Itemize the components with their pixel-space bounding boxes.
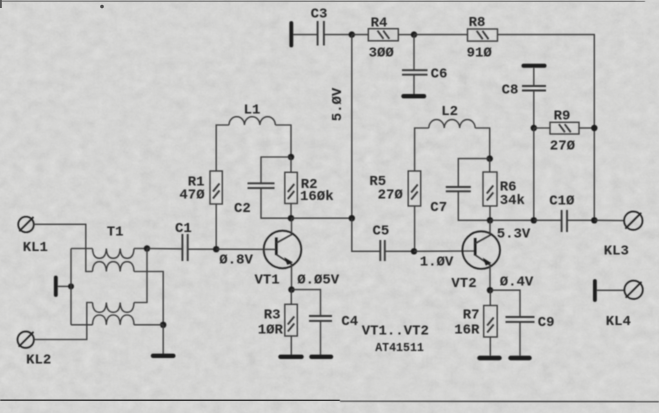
terminal bar KL4: [593, 281, 597, 300]
wire bar to C8: [533, 68, 535, 86]
svg-text:KL1: KL1: [23, 240, 48, 256]
R3 leads: [290, 290, 292, 305]
terminal bar T1 center: [54, 278, 58, 296]
svg-text:5.ØV: 5.ØV: [330, 87, 346, 121]
capacitor C9: [506, 317, 535, 322]
wire node to C7 top: [458, 159, 489, 187]
svg-text:L1: L1: [244, 102, 261, 118]
terminal bar above C8: [524, 64, 545, 68]
inductor L2: [429, 120, 475, 128]
VT1 emitter wire: [291, 265, 293, 290]
svg-text:47Ø: 47Ø: [179, 188, 205, 204]
svg-text:C4: C4: [341, 314, 358, 330]
node C10/rail: [591, 217, 597, 223]
wire KL2 to T1: [34, 303, 92, 340]
terminal KL3: [624, 212, 642, 230]
wire node down to winding 2a: [134, 249, 147, 303]
wire node to 5.0V rail: [291, 217, 352, 219]
node C1/R1/base VT1: [213, 246, 219, 252]
svg-text:C8: C8: [502, 83, 519, 99]
resistor R9: [550, 122, 579, 134]
wire rail node down to C5: [352, 218, 380, 251]
node emitter VT1: [288, 286, 294, 292]
ground of R3: [281, 355, 302, 359]
resistor R5: [408, 171, 421, 206]
wire KL4 bar to circle: [597, 289, 625, 291]
wire bar to node: [58, 285, 71, 287]
svg-text:AT41511: AT41511: [375, 342, 424, 355]
bottom border line: [0, 400, 340, 401]
svg-text:C1: C1: [175, 221, 192, 237]
node R2/C2/collector: [288, 215, 294, 221]
speck top left: [100, 5, 104, 9]
wire to T1 winding 1a: [71, 248, 93, 250]
VT1 collector wire: [291, 218, 293, 234]
wire C5 to node: [385, 250, 414, 252]
inductor L1: [229, 117, 275, 125]
transformer T1 winding 2a (humps down): [93, 303, 135, 313]
wire C6 to ground: [413, 75, 415, 94]
wire C2 bottom to node: [261, 188, 291, 218]
transistor VT2: [462, 231, 500, 269]
svg-text:C9: C9: [538, 315, 555, 331]
node C8/R9: [531, 125, 537, 131]
terminal KL1: [18, 217, 34, 233]
svg-text:C2: C2: [234, 201, 251, 217]
wire node to C2 top: [261, 157, 291, 183]
resistor R4: [368, 29, 398, 41]
transistor VT1: [264, 231, 302, 269]
node top of 5.0V rail: [349, 31, 355, 37]
svg-text:R7: R7: [463, 308, 480, 324]
transformer T1 winding 1b (humps up): [93, 262, 135, 272]
C4 lead to ground: [320, 321, 322, 355]
svg-text:C6: C6: [431, 66, 448, 82]
resistor R2: [285, 172, 298, 203]
wire node to R4: [352, 34, 369, 36]
capacitor C10: [562, 210, 567, 232]
VT2 collector wire: [489, 220, 491, 235]
node L1/R2/C2: [288, 154, 294, 160]
node C5/R5/base VT2: [411, 248, 417, 254]
svg-text:T1: T1: [107, 225, 124, 241]
svg-text:C1Ø: C1Ø: [549, 194, 575, 210]
wire L2 left to R5: [415, 128, 429, 171]
node R4/R8/C6: [411, 31, 417, 37]
svg-text:R9: R9: [554, 109, 571, 125]
transformer T1 winding 1a (top, humps down): [93, 248, 135, 258]
node T1 center tap: [68, 283, 74, 289]
capacitor C2: [248, 183, 275, 188]
node T1 output: [144, 245, 150, 251]
wire R5 to C5 node: [414, 206, 416, 251]
resistor R6: [483, 172, 497, 206]
svg-text:R8: R8: [469, 15, 486, 31]
svg-text:C5: C5: [373, 223, 390, 239]
wire emitter node to C4: [292, 290, 321, 316]
node windings right: [160, 322, 166, 328]
ground of T1: [153, 354, 173, 358]
wire R9 to rail node: [579, 127, 594, 129]
R7 leads: [489, 290, 491, 305]
svg-text:VT1: VT1: [255, 273, 280, 289]
svg-text:KL3: KL3: [604, 244, 629, 260]
svg-text:1ØR: 1ØR: [258, 322, 284, 338]
wire node to KL3: [594, 219, 624, 221]
node R9/rail: [591, 125, 597, 131]
svg-text:Ø.4V: Ø.4V: [500, 275, 534, 291]
svg-text:16Øk: 16Øk: [300, 189, 334, 205]
wire node to ground: [162, 325, 164, 354]
capacitor C7: [446, 187, 471, 191]
ground of R7: [480, 356, 500, 360]
wire winding 1a to node: [134, 248, 147, 250]
wire R1 to base row node: [215, 204, 217, 249]
capacitor C1: [182, 234, 187, 261]
wire node to C6: [413, 35, 415, 70]
terminal bar (input of C3, top left): [289, 23, 293, 46]
top border line: [0, 0, 645, 3]
terminal KL2: [18, 332, 34, 348]
wire node to R9: [534, 127, 550, 129]
transformer T1 winding 2b (humps up): [93, 315, 135, 325]
wire C7 bottom to node: [458, 192, 490, 221]
svg-text:91Ø: 91Ø: [467, 45, 493, 61]
svg-text:16R: 16R: [454, 322, 480, 338]
speck top left edge: [0, 0, 2, 8]
5.0V rail: [351, 35, 353, 219]
capacitor C4: [309, 316, 332, 321]
wire right rail R9 to KL3 row: [593, 128, 595, 220]
node L2/R6/C7: [487, 155, 493, 161]
VT2 emitter wire: [489, 266, 491, 291]
resistor R1: [210, 171, 222, 204]
wire center tap rail: [70, 249, 72, 325]
wire winding 1b down to node: [134, 272, 163, 325]
capacitor C5: [380, 240, 385, 261]
svg-text:R3: R3: [264, 308, 281, 324]
node C10 left: [531, 217, 537, 223]
wire to T1 winding 2b: [71, 324, 93, 326]
wire C8 to node: [533, 91, 535, 129]
capacitor C6: [402, 70, 428, 75]
wire T1 node to C1: [147, 248, 182, 250]
terminal KL4: [624, 281, 642, 299]
wire R8 to right rail: [498, 35, 595, 128]
R6 leads: [489, 159, 491, 172]
svg-text:3ØØ: 3ØØ: [369, 45, 395, 61]
svg-text:KL2: KL2: [26, 353, 51, 369]
wire winding 2b to node: [134, 324, 163, 326]
wire node to C10: [534, 219, 562, 221]
wire node to VT1 base: [216, 248, 276, 250]
svg-text:C7: C7: [430, 200, 447, 216]
wire node to VT2 base: [414, 250, 475, 252]
node 5.0V rail / C5 branch: [349, 215, 355, 221]
wire C1 to node: [188, 248, 216, 250]
node emitter VT2: [487, 287, 493, 293]
wire bar to C3: [293, 34, 317, 36]
svg-text:34k: 34k: [500, 193, 525, 209]
svg-text:5.3V: 5.3V: [497, 226, 531, 242]
wire L1 right to node: [275, 125, 291, 157]
resistor R8: [468, 29, 498, 41]
wire L1 left to R1: [216, 125, 229, 171]
ground of C4: [312, 355, 332, 359]
wire L2 right to node: [475, 128, 490, 159]
wire R4 to node: [398, 34, 414, 36]
svg-text:Ø.Ø5V: Ø.Ø5V: [297, 272, 340, 288]
svg-text:VT2: VT2: [451, 276, 476, 292]
svg-text:R4: R4: [371, 16, 388, 32]
wire C3 to node: [325, 34, 352, 36]
ground of C9: [511, 356, 530, 360]
wire node to C10 node: [490, 219, 534, 221]
svg-text:Ø.8V: Ø.8V: [219, 252, 253, 268]
resistor R3: [285, 304, 298, 336]
node R6/C7/collector VT2: [487, 217, 493, 223]
wire node to R8: [414, 34, 468, 36]
R2 leads: [290, 157, 292, 172]
wire node down to C10 node: [533, 128, 535, 220]
ground of C6: [404, 94, 425, 98]
C9 lead to ground: [519, 322, 521, 356]
wire emitter node to C9: [490, 290, 520, 317]
svg-text:L2: L2: [441, 104, 458, 120]
svg-text:C3: C3: [311, 7, 328, 23]
capacitor C8: [522, 86, 546, 91]
wire KL1 to T1: [34, 224, 93, 271]
svg-text:1.ØV: 1.ØV: [420, 255, 454, 271]
svg-text:KL4: KL4: [606, 314, 631, 330]
svg-text:VT1..VT2: VT1..VT2: [362, 323, 429, 339]
svg-text:27Ø: 27Ø: [378, 188, 404, 204]
wire C10 to rail node: [567, 219, 594, 221]
capacitor C3: [318, 21, 324, 46]
svg-text:27Ø: 27Ø: [550, 139, 576, 155]
resistor R7: [484, 306, 498, 338]
